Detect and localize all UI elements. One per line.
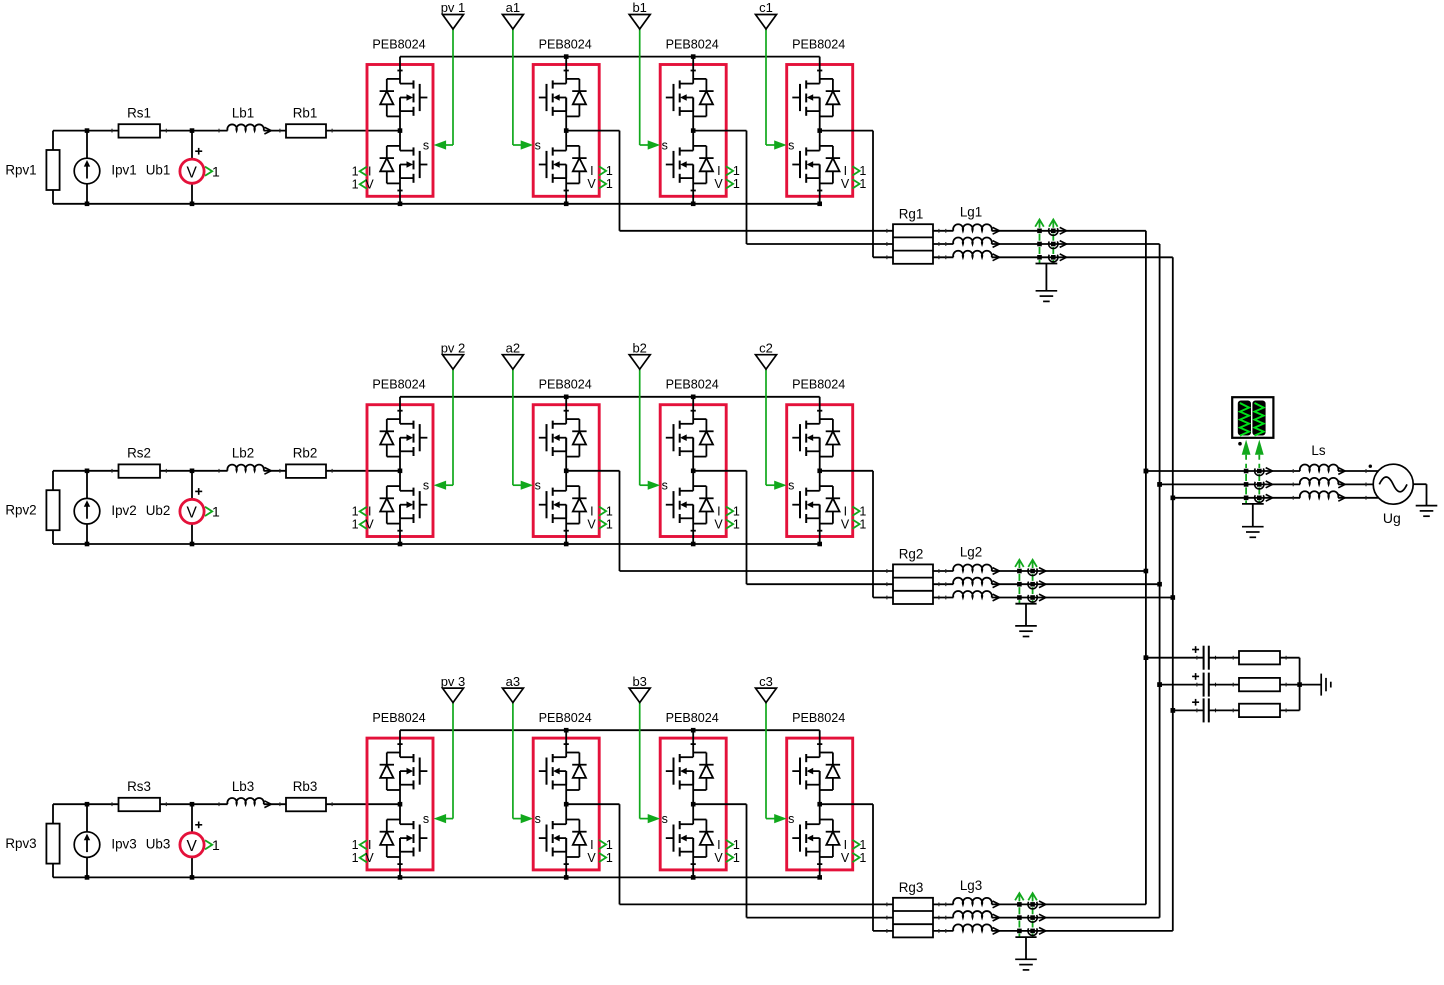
svg-text:1: 1: [859, 177, 866, 191]
svg-text:c2: c2: [759, 340, 773, 355]
svg-text:Lb1: Lb1: [232, 106, 254, 121]
svg-text:PEB8024: PEB8024: [792, 378, 845, 392]
scope probe arrows (green): [1242, 440, 1264, 504]
resistor Rb2: [280, 446, 332, 478]
svg-text:PEB8024: PEB8024: [792, 711, 845, 725]
wire bottom rail: [53, 804, 820, 877]
svg-text:c1: c1: [759, 0, 773, 15]
three-phase inductor Lg1: [887, 205, 1000, 261]
svg-text:1: 1: [212, 837, 220, 853]
wire phase output module phase c row 2: [820, 471, 893, 598]
svg-text:Lg3: Lg3: [960, 878, 982, 893]
scope (grid measurements): [1232, 397, 1273, 438]
resistor Rs3: [112, 779, 166, 811]
input port pv3: [441, 674, 466, 703]
svg-text:I: I: [590, 838, 593, 852]
svg-text:Lb3: Lb3: [232, 779, 254, 794]
svg-text:1: 1: [352, 851, 359, 865]
svg-text:I: I: [717, 164, 720, 178]
svg-text:V: V: [841, 177, 850, 191]
svg-text:I: I: [368, 165, 371, 179]
wire phase output module phase b row 1: [693, 131, 893, 244]
ground row 1: [1036, 264, 1058, 302]
wire module leg vertical: [817, 397, 822, 544]
mosfet lower with diode (PEB8024 phase c, row 3): [792, 820, 840, 858]
svg-text:s: s: [535, 138, 541, 152]
gate input s of module boost row 2: [423, 369, 453, 492]
svg-text:a1: a1: [506, 0, 520, 15]
wire module leg vertical: [691, 397, 696, 544]
gate input s of module boost row 3: [423, 703, 453, 826]
ground at grid probes: [1242, 504, 1264, 537]
svg-text:b2: b2: [632, 340, 646, 355]
svg-text:V: V: [365, 851, 374, 865]
wire phase output module phase b row 2: [693, 471, 893, 584]
svg-text:1: 1: [352, 178, 359, 192]
half-bridge module PEB8024 (boost leg, row 1): [367, 38, 433, 197]
mosfet lower with diode (PEB8024 boost, row 2): [380, 486, 428, 523]
svg-text:PEB8024: PEB8024: [666, 38, 719, 52]
gate input s of module phase a row 1: [513, 29, 541, 152]
half-bridge module PEB8024 (phase a leg, row 3): [533, 711, 599, 870]
wire phase output module phase b row 3: [693, 804, 893, 917]
svg-text:Ug: Ug: [1383, 510, 1401, 526]
input port c3: [756, 674, 777, 703]
mosfet upper with diode (PEB8024 phase c, row 3): [792, 753, 840, 791]
AC voltage source Ug: [1369, 464, 1414, 526]
svg-text:1: 1: [733, 838, 740, 852]
input port a1: [502, 0, 523, 29]
module measurement ports I,V (row 2, boost): [352, 505, 375, 532]
capacitor C3 (damping branch 3): [1171, 698, 1216, 722]
module measurement ports I,V (row 1, boost): [352, 165, 375, 192]
svg-text:Rg2: Rg2: [899, 547, 924, 562]
svg-text:b3: b3: [632, 674, 646, 689]
input port b3: [629, 674, 650, 703]
svg-text:Ub3: Ub3: [146, 836, 171, 851]
module measurement ports I,V (row 1, phase b): [714, 164, 739, 191]
svg-text:Ub1: Ub1: [146, 163, 171, 178]
input port a2: [502, 340, 523, 369]
voltage probe (green arrow) row 2: [1015, 560, 1037, 604]
svg-text:1: 1: [606, 164, 613, 178]
svg-text:Rs3: Rs3: [127, 779, 151, 794]
mosfet lower with diode (PEB8024 phase c, row 2): [792, 486, 840, 523]
svg-text:Lg2: Lg2: [960, 545, 982, 560]
module measurement ports I,V (row 1, phase c): [841, 164, 866, 191]
voltage probe (green arrow) row 3: [1015, 893, 1037, 937]
svg-text:V: V: [714, 517, 723, 531]
svg-text:s: s: [788, 479, 794, 493]
half-bridge module PEB8024 (phase c leg, row 2): [787, 378, 853, 537]
svg-text:Rb1: Rb1: [293, 106, 318, 121]
wire phase output module phase a row 3: [566, 804, 893, 904]
three-phase resistor Rg2: [893, 547, 933, 605]
svg-text:c3: c3: [759, 674, 773, 689]
svg-text:pv 1: pv 1: [441, 0, 466, 15]
mosfet lower with diode (PEB8024 phase b, row 3): [666, 820, 714, 858]
svg-text:1: 1: [733, 164, 740, 178]
mosfet lower with diode (PEB8024 boost, row 3): [380, 820, 428, 858]
gate input s of module phase b row 3: [640, 703, 668, 826]
svg-text:s: s: [423, 138, 429, 152]
voltmeter Ub1 output port 1: [205, 163, 220, 179]
svg-text:1: 1: [212, 163, 220, 179]
mosfet upper with diode (PEB8024 phase a, row 2): [539, 419, 587, 457]
gate input s of module phase c row 2: [766, 369, 794, 492]
svg-text:s: s: [535, 479, 541, 493]
wire module leg vertical: [564, 57, 569, 204]
capacitor C1 (damping branch 1): [1144, 646, 1216, 670]
input port a3: [502, 674, 523, 703]
svg-text:PEB8024: PEB8024: [666, 378, 719, 392]
svg-text:1: 1: [352, 165, 359, 179]
wire grid three-phase: [1146, 469, 1378, 500]
mosfet lower with diode (PEB8024 phase c, row 1): [792, 146, 840, 184]
wire module leg vertical: [397, 730, 402, 877]
svg-text:PEB8024: PEB8024: [792, 38, 845, 52]
wire module leg vertical: [397, 57, 402, 204]
voltmeter Ub3 output port 1: [205, 837, 220, 853]
junction dots bottom rail: [398, 202, 822, 207]
three-phase resistor Rg1: [893, 206, 933, 263]
current probe dots/rings row 3: [1017, 901, 1046, 935]
svg-text:1: 1: [859, 838, 866, 852]
bus phase C vertical: [1171, 257, 1176, 931]
svg-text:Rg3: Rg3: [899, 880, 924, 895]
svg-text:V: V: [365, 518, 374, 532]
svg-text:V: V: [587, 177, 596, 191]
svg-text:V: V: [841, 517, 850, 531]
svg-text:I: I: [844, 164, 847, 178]
ground row 2: [1015, 604, 1037, 637]
svg-text:PEB8024: PEB8024: [539, 378, 592, 392]
gate input s of module phase a row 2: [513, 369, 541, 492]
svg-text:Ipv3: Ipv3: [111, 836, 136, 851]
svg-text:1: 1: [733, 517, 740, 531]
svg-text:1: 1: [606, 504, 613, 518]
svg-text:1: 1: [859, 164, 866, 178]
wire bottom rail: [53, 131, 820, 204]
wire phase output module phase a row 1: [566, 131, 893, 231]
half-bridge module PEB8024 (phase c leg, row 1): [787, 38, 853, 197]
bus phase A vertical: [1144, 231, 1149, 905]
wire phase output module phase a row 2: [566, 471, 893, 571]
mosfet lower with diode (PEB8024 phase b, row 1): [666, 146, 714, 184]
current source Ipv2: [74, 469, 136, 547]
gate input s of module phase c row 3: [766, 703, 794, 826]
svg-text:PEB8024: PEB8024: [539, 38, 592, 52]
gate input s of module phase b row 1: [640, 29, 668, 152]
resistor damping branch 2: [1209, 678, 1300, 691]
svg-text:V: V: [587, 517, 596, 531]
svg-text:Ls: Ls: [1311, 443, 1325, 458]
module measurement ports I,V (row 2, phase a): [587, 504, 612, 531]
input port pv1: [441, 0, 466, 29]
half-bridge module PEB8024 (phase c leg, row 3): [787, 711, 853, 870]
wire phase output module phase c row 3: [820, 804, 893, 931]
svg-text:1: 1: [859, 517, 866, 531]
inductor Lb2: [219, 446, 271, 475]
gate input s of module boost row 1: [423, 29, 453, 152]
svg-text:Rs2: Rs2: [127, 446, 151, 461]
current probe dots/rings row 1: [1037, 227, 1066, 261]
mosfet upper with diode (PEB8024 boost, row 2): [380, 419, 428, 457]
wire three-phase to bus: [992, 571, 1173, 598]
module measurement ports I,V (row 1, phase a): [587, 164, 612, 191]
resistor damping branch 3: [1209, 704, 1300, 717]
svg-text:I: I: [844, 838, 847, 852]
svg-text:a2: a2: [506, 340, 520, 355]
resistor Rpv3: [5, 824, 59, 864]
svg-text:s: s: [423, 479, 429, 493]
mosfet lower with diode (PEB8024 phase a, row 2): [539, 486, 587, 523]
svg-text:s: s: [662, 812, 668, 826]
voltage probe (green arrow) row 1: [1035, 220, 1057, 264]
svg-text:PEB8024: PEB8024: [539, 711, 592, 725]
capacitor C2 (damping branch 2): [1157, 673, 1215, 697]
resistor Rs2: [112, 446, 166, 478]
mosfet lower with diode (PEB8024 phase b, row 2): [666, 486, 714, 523]
svg-text:I: I: [368, 838, 371, 852]
module measurement ports I,V (row 3, phase b): [714, 838, 739, 865]
wire module leg vertical: [817, 57, 822, 204]
inductor Ls (three-phase): [1293, 443, 1345, 501]
svg-text:Rb2: Rb2: [293, 446, 318, 461]
svg-text:I: I: [590, 504, 593, 518]
svg-text:1: 1: [352, 838, 359, 852]
svg-text:1: 1: [606, 851, 613, 865]
half-bridge module PEB8024 (phase a leg, row 1): [533, 38, 599, 197]
svg-text:V: V: [365, 178, 374, 192]
mosfet upper with diode (PEB8024 phase c, row 1): [792, 79, 840, 117]
three-phase resistor Rg3: [893, 880, 933, 937]
wire DC+ rail: [400, 395, 820, 400]
svg-text:I: I: [844, 504, 847, 518]
mosfet lower with diode (PEB8024 phase a, row 1): [539, 146, 587, 184]
voltmeter Ub2: [146, 469, 204, 547]
mosfet upper with diode (PEB8024 phase a, row 3): [539, 753, 587, 791]
resistor Rb3: [280, 779, 332, 811]
svg-text:V: V: [587, 851, 596, 865]
wire top left: [53, 130, 400, 132]
svg-text:1: 1: [606, 517, 613, 531]
junction dots bottom rail: [398, 542, 822, 547]
svg-text:PEB8024: PEB8024: [372, 38, 425, 52]
svg-text:V: V: [841, 851, 850, 865]
input port b1: [629, 0, 650, 29]
mosfet upper with diode (PEB8024 boost, row 1): [380, 79, 428, 117]
svg-text:I: I: [368, 505, 371, 519]
voltmeter Ub1: [146, 128, 204, 206]
svg-text:s: s: [535, 812, 541, 826]
svg-text:Rb3: Rb3: [293, 779, 318, 794]
resistor Rb1: [280, 106, 332, 138]
ground at damping branches: [1321, 674, 1331, 696]
svg-text:pv 3: pv 3: [441, 674, 466, 689]
input port c2: [756, 340, 777, 369]
wire module leg vertical: [564, 397, 569, 544]
grid probe dots and rings: [1144, 442, 1273, 502]
mosfet upper with diode (PEB8024 boost, row 3): [380, 753, 428, 791]
resistor Rs1: [112, 106, 166, 138]
svg-text:V: V: [187, 838, 198, 855]
input port b2: [629, 340, 650, 369]
module measurement ports I,V (row 3, phase c): [841, 838, 866, 865]
svg-text:Lg1: Lg1: [960, 205, 982, 220]
junction dots bottom rail: [398, 875, 822, 880]
svg-text:1: 1: [733, 851, 740, 865]
inductor Lb3: [219, 779, 271, 808]
wire module leg vertical: [564, 730, 569, 877]
svg-text:s: s: [423, 812, 429, 826]
ground row 3: [1015, 937, 1037, 970]
svg-text:PEB8024: PEB8024: [372, 711, 425, 725]
mosfet upper with diode (PEB8024 phase b, row 3): [666, 753, 714, 791]
svg-text:1: 1: [352, 505, 359, 519]
resistor Rpv2: [5, 490, 59, 530]
svg-text:s: s: [662, 479, 668, 493]
wire three-phase to bus: [992, 231, 1173, 257]
half-bridge module PEB8024 (boost leg, row 2): [367, 378, 433, 537]
gate input s of module phase c row 1: [766, 29, 794, 152]
resistor damping branch 1: [1209, 651, 1300, 664]
module measurement ports I,V (row 3, boost): [352, 838, 375, 865]
svg-text:V: V: [187, 505, 198, 522]
svg-text:Ub2: Ub2: [146, 503, 171, 518]
svg-text:s: s: [788, 138, 794, 152]
mosfet upper with diode (PEB8024 phase b, row 1): [666, 79, 714, 117]
wire module leg vertical: [691, 730, 696, 877]
svg-text:s: s: [788, 812, 794, 826]
resistor Rpv1: [5, 150, 59, 190]
svg-text:1: 1: [606, 177, 613, 191]
voltmeter Ub3: [146, 802, 204, 880]
gate input s of module phase b row 2: [640, 369, 668, 492]
three-phase inductor Lg3: [887, 878, 1000, 934]
half-bridge module PEB8024 (boost leg, row 3): [367, 711, 433, 870]
svg-text:Ipv2: Ipv2: [111, 503, 136, 518]
svg-text:Lb2: Lb2: [232, 446, 254, 461]
input port c1: [756, 0, 777, 29]
wire three-phase to bus: [992, 904, 1173, 931]
wire DC+ rail: [400, 728, 820, 733]
inductor Lb1: [219, 106, 271, 135]
svg-text:Rpv2: Rpv2: [5, 503, 36, 518]
svg-text:1: 1: [352, 518, 359, 532]
wire bottom rail: [53, 471, 820, 544]
wire module leg vertical: [691, 57, 696, 204]
wire module leg vertical: [817, 730, 822, 877]
bus phase B vertical: [1157, 244, 1162, 918]
svg-text:1: 1: [733, 504, 740, 518]
current source Ipv1: [74, 128, 136, 206]
mosfet upper with diode (PEB8024 phase c, row 2): [792, 419, 840, 457]
svg-text:V: V: [714, 851, 723, 865]
svg-text:Ipv1: Ipv1: [111, 163, 136, 178]
svg-text:1: 1: [859, 504, 866, 518]
gate input s of module phase a row 3: [513, 703, 541, 826]
wire join damping branches: [1297, 658, 1321, 711]
half-bridge module PEB8024 (phase b leg, row 1): [660, 38, 726, 197]
svg-text:Rs1: Rs1: [127, 106, 151, 121]
svg-text:1: 1: [212, 504, 220, 520]
module measurement ports I,V (row 3, phase a): [587, 838, 612, 865]
half-bridge module PEB8024 (phase b leg, row 2): [660, 378, 726, 537]
wire top left: [53, 470, 400, 472]
current source Ipv3: [74, 802, 136, 880]
svg-text:V: V: [714, 177, 723, 191]
svg-text:I: I: [717, 838, 720, 852]
svg-text:V: V: [187, 164, 198, 181]
svg-text:1: 1: [859, 851, 866, 865]
mosfet lower with diode (PEB8024 phase a, row 3): [539, 820, 587, 858]
module measurement ports I,V (row 2, phase b): [714, 504, 739, 531]
svg-text:Rpv1: Rpv1: [5, 163, 36, 178]
input port pv2: [441, 340, 466, 369]
svg-text:1: 1: [733, 177, 740, 191]
svg-text:1: 1: [606, 838, 613, 852]
current probe dots/rings row 2: [1017, 568, 1046, 602]
mosfet upper with diode (PEB8024 phase a, row 1): [539, 79, 587, 117]
wire phase output module phase c row 1: [820, 131, 893, 258]
mosfet upper with diode (PEB8024 phase b, row 2): [666, 419, 714, 457]
three-phase inductor Lg2: [887, 545, 1000, 601]
wire DC+ rail: [400, 54, 820, 59]
module measurement ports I,V (row 2, phase c): [841, 504, 866, 531]
wire module leg vertical: [397, 397, 402, 544]
svg-text:a3: a3: [506, 674, 520, 689]
mosfet lower with diode (PEB8024 boost, row 1): [380, 146, 428, 184]
svg-text:Rg1: Rg1: [899, 206, 924, 221]
svg-text:pv 2: pv 2: [441, 340, 466, 355]
svg-text:b1: b1: [632, 0, 646, 15]
wire top left: [53, 803, 400, 805]
svg-text:s: s: [662, 138, 668, 152]
svg-text:Rpv3: Rpv3: [5, 836, 36, 851]
svg-text:PEB8024: PEB8024: [666, 711, 719, 725]
ground at Ug: [1413, 484, 1437, 516]
svg-text:I: I: [590, 164, 593, 178]
svg-text:PEB8024: PEB8024: [372, 378, 425, 392]
svg-text:I: I: [717, 504, 720, 518]
voltmeter Ub2 output port 1: [205, 504, 220, 520]
half-bridge module PEB8024 (phase a leg, row 2): [533, 378, 599, 537]
half-bridge module PEB8024 (phase b leg, row 3): [660, 711, 726, 870]
